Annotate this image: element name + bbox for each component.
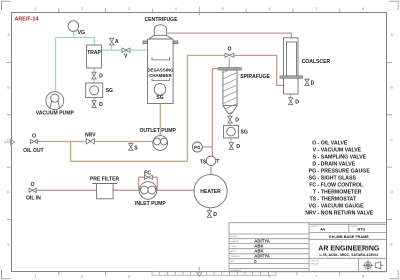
- wire sg spirafuge drain: [230, 138, 232, 150]
- bottom centering mark: [197, 267, 202, 277]
- top ruler ticks: [59, 9, 340, 13]
- svg-text:D: D: [235, 118, 239, 124]
- svg-text:APPD: APPD: [231, 250, 237, 253]
- svg-text:TS: TS: [200, 159, 207, 165]
- wire oil in line: [36, 189, 194, 191]
- wire degasser drain to outlet pump: [159, 104, 161, 136]
- valve D trap lower: [92, 101, 96, 108]
- trim mark top-right: [389, 1, 398, 10]
- svg-text:D -: D -: [312, 161, 319, 167]
- svg-text:REV: REV: [231, 261, 236, 263]
- top ruler numbers: [34, 7, 364, 11]
- svg-text:O: O: [31, 182, 35, 188]
- svg-text:A: A: [115, 39, 119, 45]
- valve S: [129, 144, 133, 151]
- outlet pump: [153, 136, 168, 151]
- svg-text:C: C: [390, 138, 393, 142]
- wire vacuum header horizontal: [55, 37, 94, 39]
- wire VG stem: [73, 31, 75, 37]
- wire oil out main: [38, 141, 153, 143]
- wire heater riser: [212, 69, 218, 157]
- wire to trap top: [93, 38, 95, 46]
- svg-text:7: 7: [315, 7, 317, 11]
- left centering mark: [4, 139, 15, 144]
- svg-text:INLET PUMP: INLET PUMP: [135, 201, 166, 207]
- svg-text:D: D: [99, 74, 103, 80]
- svg-text:VG: VG: [78, 30, 85, 36]
- wire TS to heater: [210, 166, 212, 175]
- valve D trap upper: [92, 72, 96, 79]
- valve D coalescer side: [305, 78, 309, 85]
- svg-text:D: D: [311, 80, 315, 86]
- svg-text:SG: SG: [106, 88, 113, 94]
- svg-text:COALSCER: COALSCER: [302, 59, 331, 65]
- svg-text:PRE FILTER: PRE FILTER: [90, 177, 120, 183]
- title block left column values: [254, 239, 270, 264]
- svg-text:THERMOMETER: THERMOMETER: [321, 189, 362, 195]
- svg-text:8: 8: [362, 275, 364, 279]
- inlet pump: [139, 182, 157, 200]
- svg-text:FC: FC: [144, 170, 151, 176]
- svg-text:SIGHT GLASS: SIGHT GLASS: [321, 175, 357, 181]
- svg-text:3: 3: [128, 7, 130, 11]
- svg-text:SHEET: SHEET: [311, 226, 319, 228]
- valve D spirafuge lower: [229, 143, 233, 150]
- degasser body: [148, 39, 174, 104]
- svg-text:TS -: TS -: [309, 196, 319, 202]
- svg-text:PG: PG: [194, 145, 201, 150]
- svg-text:PG -: PG -: [309, 168, 320, 174]
- svg-text:VACUUM PUMP: VACUUM PUMP: [36, 110, 75, 116]
- svg-text:O: O: [32, 133, 36, 139]
- wire PG stub: [202, 146, 212, 148]
- svg-text:D: D: [99, 102, 103, 108]
- svg-text:SG: SG: [241, 130, 248, 136]
- valve A: [109, 38, 114, 45]
- sight glass spirafuge: [224, 125, 239, 137]
- svg-text:1: 1: [34, 275, 36, 279]
- title block drg no cell: [311, 260, 321, 265]
- vacuum pump: [46, 92, 64, 110]
- svg-text:5: 5: [222, 7, 224, 11]
- trim mark bottom-right: [389, 270, 398, 279]
- svg-text:CHAMBER: CHAMBER: [149, 73, 172, 78]
- svg-text:D: D: [7, 190, 10, 194]
- FC valve: [144, 175, 152, 179]
- top centering mark: [198, 7, 200, 16]
- svg-text:TRAP: TRAP: [87, 50, 101, 56]
- degasser sight glass: [154, 84, 166, 96]
- valve V: [122, 48, 130, 53]
- svg-text:DRAIN VALVE: DRAIN VALVE: [321, 161, 356, 167]
- projection symbol: [363, 260, 384, 270]
- wire coalescer bottom drain: [290, 94, 292, 98]
- svg-text:7: 7: [315, 275, 317, 279]
- svg-text:HEATER: HEATER: [200, 189, 221, 195]
- trap vessel: [87, 45, 102, 68]
- valve D spirafuge: [228, 116, 232, 123]
- wire oil return branch: [71, 55, 225, 161]
- svg-text:3: 3: [128, 275, 130, 279]
- svg-text:S: S: [134, 146, 138, 152]
- valve D coalescer bottom: [289, 98, 293, 105]
- coalescer flange: [280, 76, 303, 78]
- title block outline: [229, 223, 387, 272]
- svg-text:SG: SG: [156, 95, 163, 101]
- left zone letters: [7, 33, 10, 246]
- svg-text:OUTLET PUMP: OUTLET PUMP: [139, 128, 176, 134]
- wire trap drain: [93, 68, 95, 83]
- svg-text:V: V: [124, 53, 128, 59]
- svg-text:D: D: [390, 190, 393, 194]
- centrifuge shoulder: [149, 35, 172, 39]
- svg-text:8: 8: [362, 7, 364, 11]
- wire spirafuge top stub: [228, 57, 230, 67]
- valve O oil out: [31, 139, 38, 143]
- svg-text:VG -: VG -: [309, 203, 320, 209]
- svg-text:DEGASSING: DEGASSING: [147, 68, 174, 73]
- NRV valve: [86, 139, 94, 144]
- svg-text:NRV: NRV: [85, 133, 96, 139]
- svg-text:CENTRIFUGE: CENTRIFUGE: [144, 17, 178, 23]
- wire heater drain: [208, 208, 210, 218]
- centrifuge dome: [154, 25, 166, 36]
- svg-text:1: 1: [34, 7, 36, 11]
- svg-text:T -: T -: [313, 189, 320, 195]
- spirafuge flange: [218, 68, 241, 71]
- svg-text:DRAWN: DRAWN: [231, 240, 240, 243]
- scale bar strip: [152, 272, 276, 275]
- wire trap to centrifuge: [102, 49, 148, 51]
- svg-text:L-95, ADDL. MIDC, SATARA-41500: L-95, ADDL. MIDC, SATARA-415004: [320, 253, 379, 257]
- wire valve O to coalescer: [234, 55, 284, 85]
- svg-text:S -: S -: [313, 154, 320, 160]
- svg-text:NRV -: NRV -: [305, 210, 319, 216]
- svg-text:V -: V -: [313, 147, 320, 153]
- degasser tray upper: [152, 57, 170, 60]
- svg-text:AR ENGINEERING: AR ENGINEERING: [318, 246, 380, 253]
- heater: [194, 175, 227, 208]
- svg-text:ARE/F-14: ARE/F-14: [15, 16, 39, 22]
- svg-text:OIL OUT: OIL OUT: [23, 148, 44, 154]
- svg-text:SAMPLING VALVE: SAMPLING VALVE: [321, 154, 367, 160]
- title block size cell: [311, 225, 366, 232]
- wire sg drain: [93, 98, 95, 109]
- svg-text:DRG.NO.: DRG.NO.: [311, 260, 321, 262]
- bottom ruler ticks: [59, 272, 340, 276]
- svg-text:D: D: [213, 212, 217, 218]
- svg-text:TRACED: TRACED: [231, 255, 240, 258]
- svg-text:CHKD: CHKD: [231, 246, 238, 248]
- bottom ruler numbers: [34, 275, 364, 279]
- spirafuge body: [223, 70, 237, 114]
- valve O oil in: [29, 188, 36, 192]
- svg-text:6: 6: [268, 7, 270, 11]
- degasser tray lower: [152, 79, 170, 81]
- svg-text:THERMOSTAT: THERMOSTAT: [321, 196, 357, 202]
- trim mark bottom-left: [2, 270, 11, 279]
- left ruler ticks: [7, 63, 12, 220]
- svg-text:SPIRAFUGE: SPIRAFUGE: [240, 74, 270, 80]
- svg-text:EH-40B: EH-40B: [311, 263, 319, 265]
- svg-text:D: D: [295, 100, 299, 106]
- svg-text:2: 2: [81, 275, 83, 279]
- svg-text:REMARKS: REMARKS: [231, 269, 242, 272]
- svg-text:FLOW CONTROL: FLOW CONTROL: [321, 182, 364, 188]
- svg-text:NON RETURN VALVE: NON RETURN VALVE: [321, 210, 374, 216]
- wire spirafuge drain: [229, 114, 231, 126]
- label DEGASSING CHAMBER: [147, 68, 174, 78]
- svg-text:VACUUM VALVE: VACUUM VALVE: [321, 147, 362, 153]
- sight glass trap: [86, 83, 103, 98]
- coalescer body: [284, 38, 299, 94]
- svg-text:O -: O -: [312, 140, 319, 146]
- svg-text:VACUUM GAUGE: VACUUM GAUGE: [321, 203, 364, 209]
- svg-text:4: 4: [175, 7, 177, 11]
- valve O spirafuge top: [225, 53, 234, 57]
- wire centrifuge vapour line: [166, 33, 291, 38]
- svg-text:O: O: [228, 46, 232, 52]
- pressure gauge PG: [192, 142, 202, 152]
- svg-text:SG -: SG -: [309, 175, 320, 181]
- centrifuge flange tabs: [143, 41, 178, 44]
- title block left column labels: [231, 235, 242, 272]
- thermostat TS: [206, 156, 216, 166]
- wire to vacuum pump: [55, 38, 57, 93]
- svg-text:NAME: NAME: [231, 235, 238, 238]
- FC bypass loop: [139, 177, 158, 190]
- valve S stem: [130, 142, 132, 144]
- trim mark top-left: [2, 1, 11, 10]
- wire valve A stem: [111, 45, 113, 50]
- svg-text:FC -: FC -: [309, 182, 319, 188]
- svg-text:NTS: NTS: [357, 228, 365, 232]
- right zone letters: [390, 33, 393, 246]
- svg-text:C: C: [7, 138, 10, 142]
- svg-text:PRESSURE GAUGE: PRESSURE GAUGE: [321, 168, 371, 174]
- legend: [305, 140, 374, 216]
- right ruler ticks: [387, 63, 392, 220]
- svg-text:D: D: [236, 144, 240, 150]
- svg-text:OIL VALVE: OIL VALVE: [321, 140, 348, 146]
- svg-text:OIL IN: OIL IN: [26, 196, 41, 202]
- pre filter: [92, 184, 117, 199]
- vacuum gauge VG: [68, 21, 79, 32]
- svg-text:2: 2: [81, 7, 83, 11]
- valve D heater: [207, 211, 211, 218]
- svg-text:EH-40B BASE FRAME: EH-40B BASE FRAME: [329, 235, 369, 239]
